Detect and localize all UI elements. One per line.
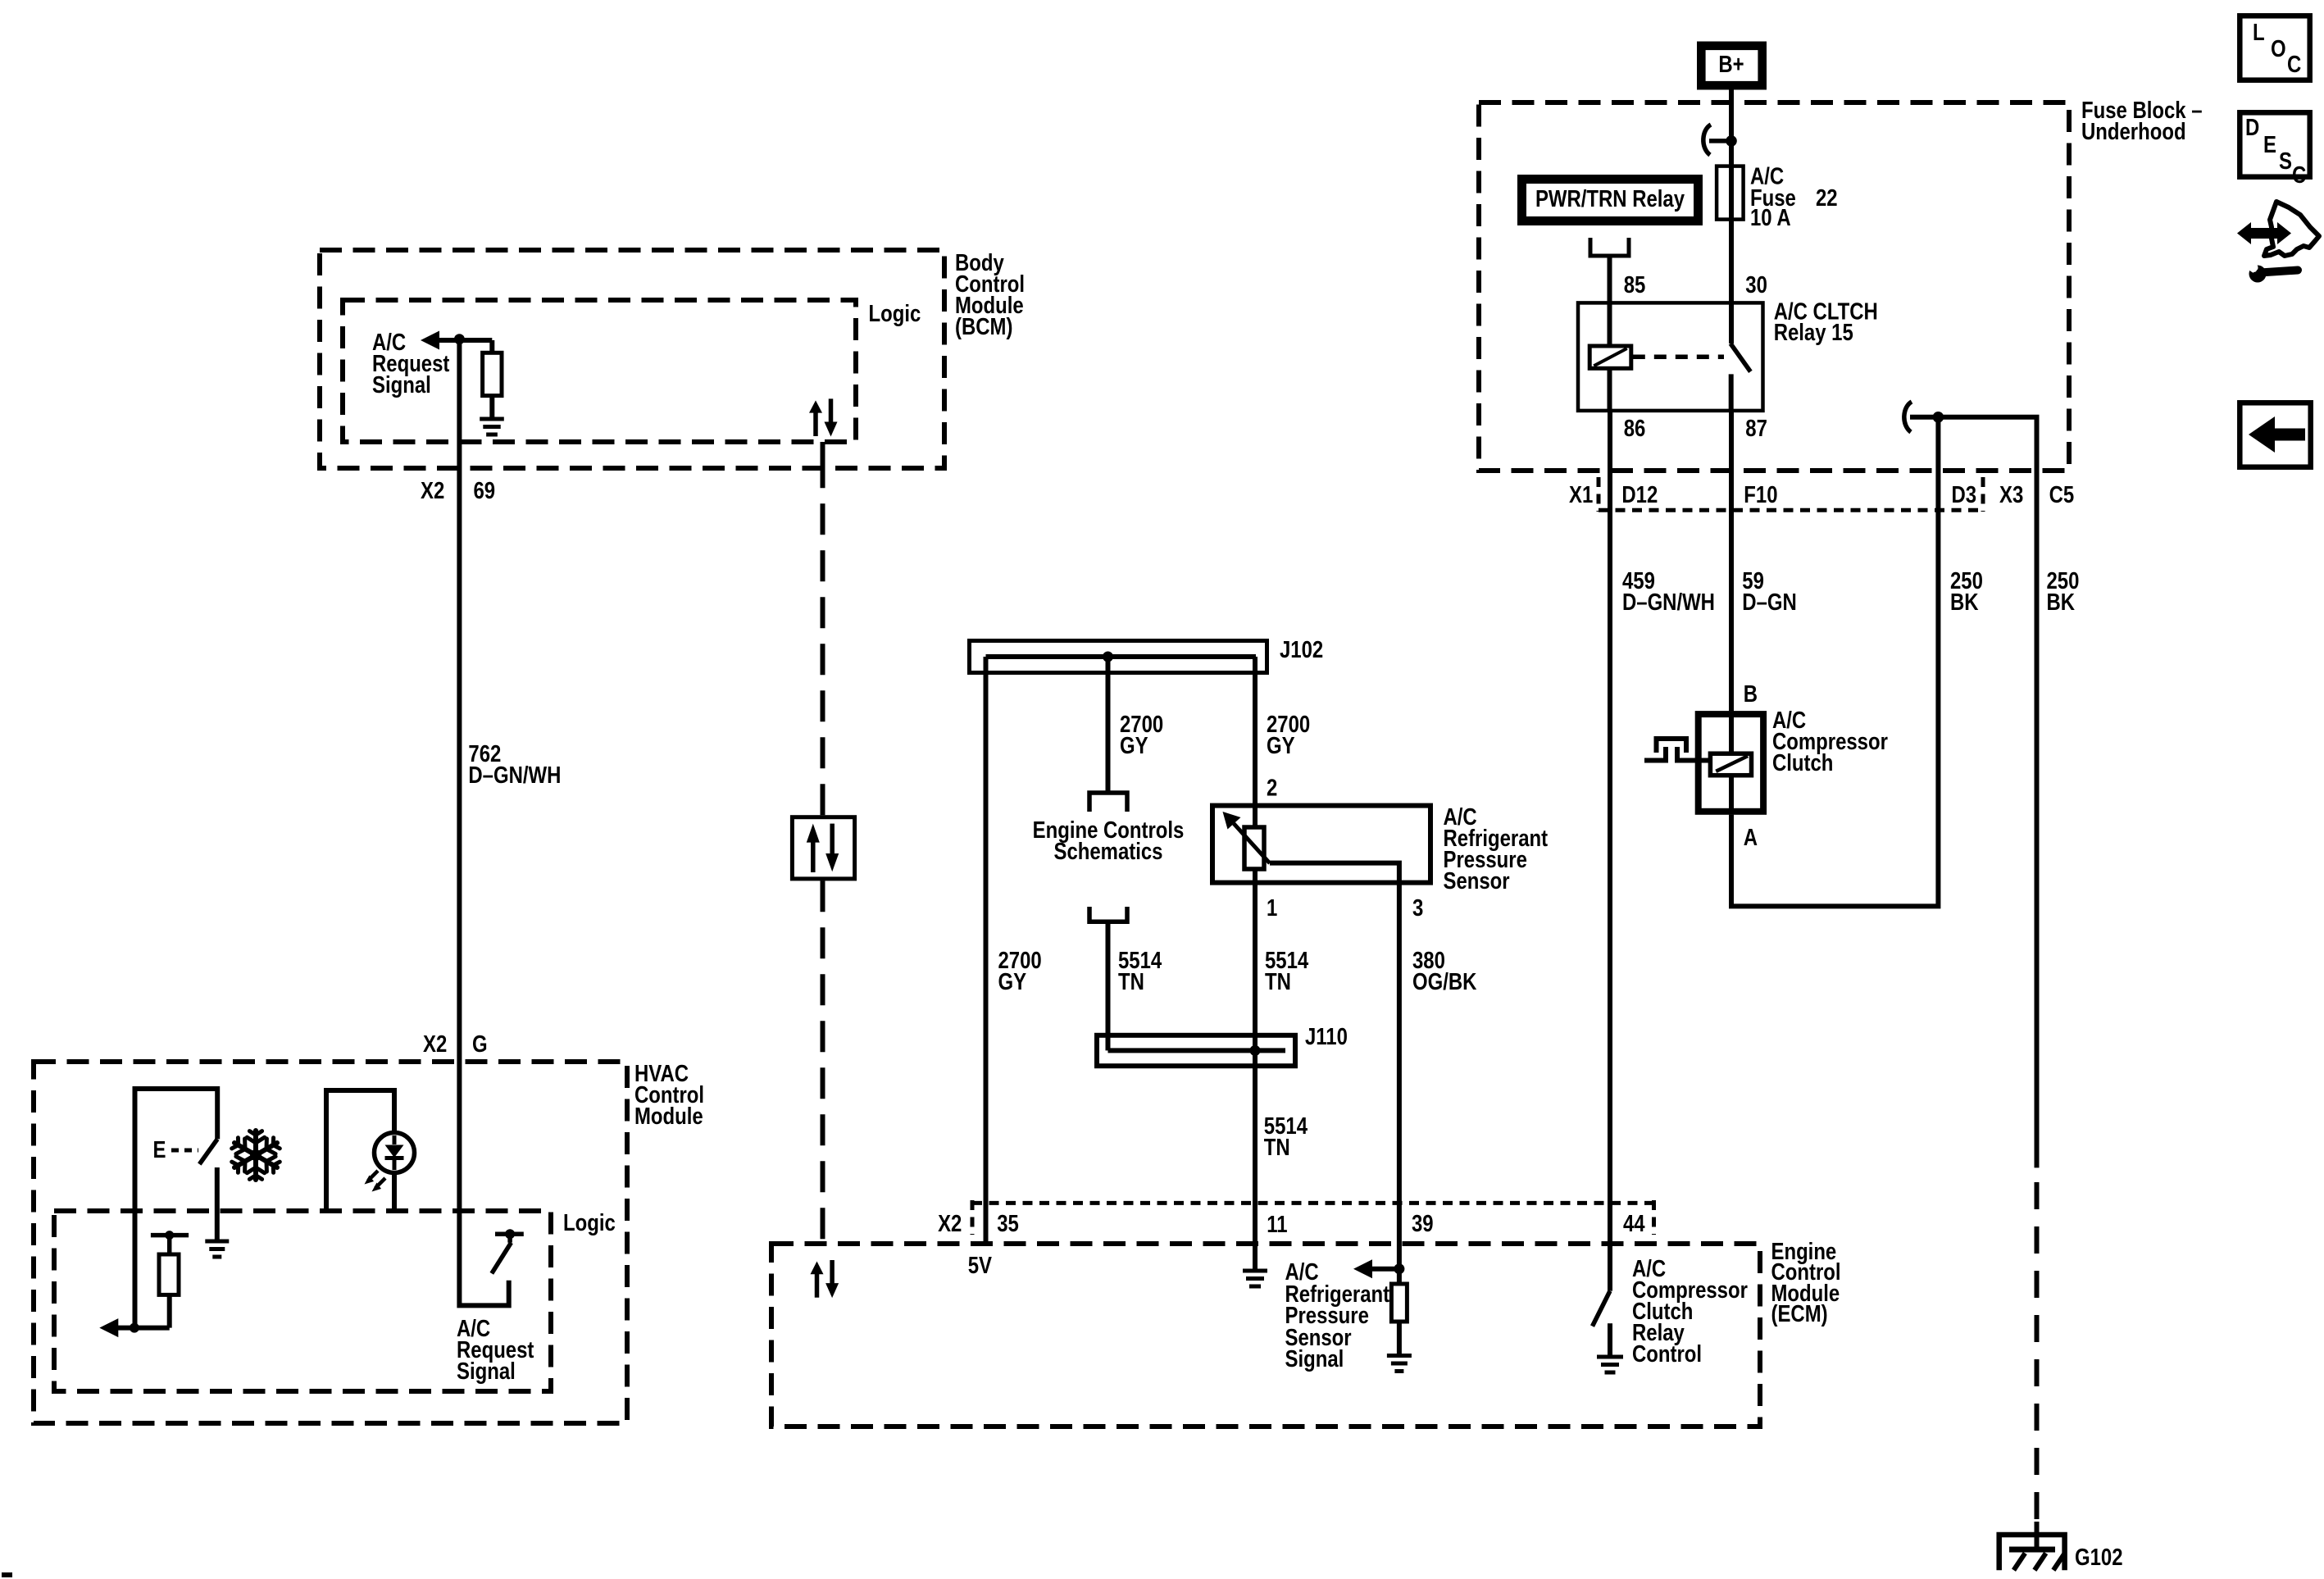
snow switch blade (199, 1139, 217, 1164)
component-view icon: double arrow (2237, 222, 2251, 244)
mechanical link squiggle (1644, 747, 1666, 761)
svg-text:PWR/TRN Relay: PWR/TRN Relay (1535, 185, 1685, 212)
DESC reference box (2240, 112, 2309, 176)
snow switch lower contact (215, 1167, 220, 1241)
connector X1 separator dashes (1597, 477, 1601, 512)
page corner mark (2, 1572, 12, 1577)
bracket under PWR/TRN Relay (1590, 238, 1629, 256)
up/down data arrows (ECM) (815, 1272, 820, 1298)
svg-text:3: 3 (1412, 894, 1423, 921)
B+ power terminal box (1701, 46, 1762, 85)
junction dot D3 branch (1933, 412, 1944, 423)
svg-text:(ECM): (ECM) (1771, 1300, 1828, 1326)
relay switch blade pin 30 (1730, 344, 1750, 371)
arrow A/C request signal (BCM) (421, 331, 439, 350)
svg-text:Module: Module (634, 1103, 703, 1129)
svg-text:87: 87 (1745, 415, 1767, 441)
svg-text:D–GN/WH: D–GN/WH (468, 762, 561, 788)
connector clip symbol at B+ feed (1703, 125, 1711, 155)
svg-text:F10: F10 (1744, 481, 1777, 507)
svg-text:G102: G102 (2075, 1544, 2123, 1570)
svg-text:GY: GY (998, 968, 1027, 994)
svg-text:B+: B+ (1718, 51, 1744, 77)
resistor top tap bar with dot (151, 1233, 189, 1238)
Fuse Block - Underhood dashed box (1479, 102, 2069, 471)
switch ECM pin 44 (A/C compressor clutch relay control) (1608, 1244, 1612, 1291)
svg-text:(BCM): (BCM) (955, 313, 1012, 339)
ground ECM pin 44 (1597, 1355, 1623, 1359)
svg-text:C: C (2292, 162, 2306, 188)
A/C Compressor Clutch box (1699, 714, 1763, 812)
PWR/TRN Relay source box (1522, 180, 1699, 221)
relay fixed contact pin 87 (1729, 374, 1734, 411)
Engine Control Module (ECM) dashed box (771, 1244, 1760, 1427)
ECM connector strip line (972, 1201, 1654, 1205)
svg-text:Relay 15: Relay 15 (1774, 319, 1853, 345)
wire 5514 TN bracket to J110 (1106, 921, 1111, 1050)
connector clip symbol right (1904, 402, 1912, 432)
svg-text:G: G (472, 1031, 488, 1057)
relay coil (1590, 346, 1631, 368)
junction dot ECM pin 39 (1394, 1263, 1404, 1274)
ground ECM pin 11 (1253, 1244, 1258, 1271)
svg-text:C5: C5 (2049, 481, 2075, 507)
A/C request switch blade (492, 1243, 512, 1274)
resistor BCM pull (489, 340, 494, 353)
ground G102 (1999, 1535, 2065, 1570)
sensor wiper tap to pin 3 (1270, 863, 1399, 1269)
svg-text:L: L (2253, 19, 2265, 45)
junction dot J102 (1103, 652, 1113, 662)
svg-text:69: 69 (474, 477, 496, 503)
svg-text:44: 44 (1623, 1210, 1645, 1236)
svg-text:Signal: Signal (372, 371, 431, 398)
svg-text:TN: TN (1265, 968, 1291, 994)
HVAC Logic dashed box (54, 1211, 551, 1391)
svg-text:D3: D3 (1952, 481, 1977, 507)
BCM Logic dashed box (343, 300, 856, 442)
svg-text:Clutch: Clutch (1772, 749, 1833, 776)
up/down data arrows (BCM logic) (813, 412, 818, 436)
svg-text:Signal: Signal (1285, 1345, 1344, 1372)
svg-text:35: 35 (997, 1210, 1019, 1236)
HVAC feedback resistor branch: arrow, dot, resistor (99, 1318, 118, 1337)
svg-text:22: 22 (1816, 184, 1838, 211)
back-arrow (2249, 416, 2275, 453)
wire clip corner to C5 drop (1910, 417, 2037, 1168)
A/C Refrigerant Pressure Sensor box (1212, 806, 1430, 883)
svg-text:BK: BK (2047, 589, 2076, 615)
junction dot J110 (1250, 1045, 1261, 1056)
sensor wiper arrow (1234, 824, 1270, 864)
Body Control Module (BCM) dashed box (320, 250, 944, 468)
ground ECM pin 39 (1387, 1354, 1412, 1358)
back-arrow box (2240, 403, 2310, 466)
svg-text:Sensor: Sensor (1444, 867, 1510, 894)
wire 250 BK dashed to ground G102 (2035, 1182, 2040, 1527)
component-view icon: wrench (2249, 266, 2267, 283)
relay A/C CLTCH Relay 15 box (1578, 303, 1763, 411)
svg-text:D12: D12 (1621, 481, 1658, 507)
svg-text:J110: J110 (1305, 1023, 1348, 1049)
svg-text:Schematics: Schematics (1054, 838, 1163, 864)
svg-text:J102: J102 (1280, 636, 1323, 662)
resistor HVAC logic (159, 1254, 179, 1295)
HVAC Control Module dashed box (34, 1062, 627, 1423)
LED circle (375, 1133, 415, 1173)
sensor potentiometer resistor (1244, 827, 1264, 869)
svg-text:85: 85 (1624, 271, 1646, 298)
svg-text:5V: 5V (968, 1252, 993, 1278)
svg-text:A: A (1744, 824, 1758, 850)
junction dot BCM request (454, 334, 465, 344)
snowflake icon (253, 1131, 258, 1153)
clutch coil wire top (1729, 711, 1734, 753)
ECM connector X2 separator dashes (971, 1200, 975, 1235)
svg-text:11: 11 (1267, 1211, 1287, 1237)
svg-text:C: C (2287, 51, 2301, 77)
LED diode symbol (393, 1135, 397, 1144)
resistor ECM pin 39 (1397, 1269, 1402, 1284)
svg-text:39: 39 (1412, 1210, 1434, 1236)
LED indicator loop (326, 1090, 394, 1210)
svg-text:OG/BK: OG/BK (1412, 968, 1476, 994)
svg-text:X3: X3 (1999, 481, 2023, 507)
svg-text:10 A: 10 A (1750, 204, 1791, 230)
wire serial data BCM to ECM (dashed) (821, 442, 825, 469)
ECM connector right separator dashes (1652, 1200, 1656, 1235)
svg-text:86: 86 (1624, 415, 1646, 441)
svg-text:Control: Control (1632, 1340, 1702, 1367)
wire clutch A loop to D3 (1731, 417, 1938, 907)
wire PWR/TRN to relay pin 85 (1608, 256, 1612, 346)
clutch coil (1710, 753, 1751, 776)
svg-text:Logic: Logic (563, 1209, 616, 1235)
off-page bracket to Engine Controls Schematics (top) (1089, 793, 1127, 812)
fuse A/C Fuse 22 10A (1717, 166, 1744, 220)
wire 2700 GY J102 to engine controls (1106, 657, 1111, 793)
svg-text:TN: TN (1264, 1134, 1290, 1160)
svg-text:E: E (2263, 131, 2276, 157)
off-page bracket from Engine Controls Schematics (bottom) (1089, 907, 1127, 921)
svg-text:1: 1 (1267, 894, 1277, 921)
connector X3 separator dashes (1981, 477, 1985, 512)
svg-text:X2: X2 (423, 1031, 447, 1057)
LOC reference box (2240, 16, 2309, 80)
dashed link E to switch (171, 1149, 198, 1153)
svg-text:X2: X2 (938, 1210, 962, 1236)
A/C request switch fixed contact bar (495, 1231, 524, 1236)
serial data gateway box with up/down arrows (792, 817, 854, 879)
wire 59 D-GN relay 87 to compressor clutch B (1729, 411, 1734, 711)
svg-text:S: S (2279, 148, 2292, 174)
wire 5514 TN sensor pin 1 to ECM pin 11 (1253, 869, 1258, 1244)
svg-text:BK: BK (1950, 589, 1979, 615)
connector strip line X1 (1599, 508, 1983, 512)
svg-text:30: 30 (1745, 271, 1767, 298)
clutch coil wire bottom (1729, 776, 1734, 815)
svg-text:Underhood: Underhood (2081, 118, 2186, 144)
arrow ECM pin 39 signal (1353, 1259, 1372, 1278)
wire B+ down through fuse to relay pin 30 (1729, 90, 1734, 344)
wire coil to pin 86 (1608, 368, 1612, 411)
svg-text:X2: X2 (421, 477, 444, 503)
splice pack J102 (970, 641, 1267, 673)
component-view icon: part outline (2264, 202, 2319, 256)
wire 459 D-GN/WH relay 86 to ECM pin 44 (1608, 411, 1612, 1244)
svg-text:Logic: Logic (869, 300, 921, 326)
svg-text:X1: X1 (1569, 481, 1593, 507)
svg-text:D–GN: D–GN (1742, 589, 1796, 615)
svg-text:2: 2 (1267, 774, 1277, 800)
wire 2700 GY J102 to ECM pin 35 (984, 657, 989, 1244)
ground BCM resistor (480, 417, 504, 421)
svg-text:O: O (2271, 35, 2286, 61)
wire 762 D-GN/WH BCM X2-69 to HVAC X2-G with A/C request hook (459, 339, 508, 1306)
ground snow switch (205, 1240, 229, 1244)
svg-text:D–GN/WH: D–GN/WH (1622, 589, 1715, 615)
LED emission arrows (368, 1171, 378, 1181)
splice pack J110 (1097, 1035, 1295, 1066)
svg-text:TN: TN (1118, 968, 1144, 994)
wire 2700 GY J102 to pressure sensor pin 2 (1253, 657, 1258, 827)
svg-text:E: E (153, 1136, 166, 1163)
junction dot on B+ wire (1726, 135, 1737, 147)
relay dashed actuation link (1633, 354, 1724, 359)
svg-text:Signal: Signal (457, 1358, 516, 1384)
snow switch supply loop (135, 1089, 218, 1328)
svg-text:D: D (2245, 114, 2259, 140)
svg-text:GY: GY (1120, 732, 1148, 758)
svg-text:GY: GY (1267, 732, 1295, 758)
svg-text:B: B (1744, 680, 1758, 707)
